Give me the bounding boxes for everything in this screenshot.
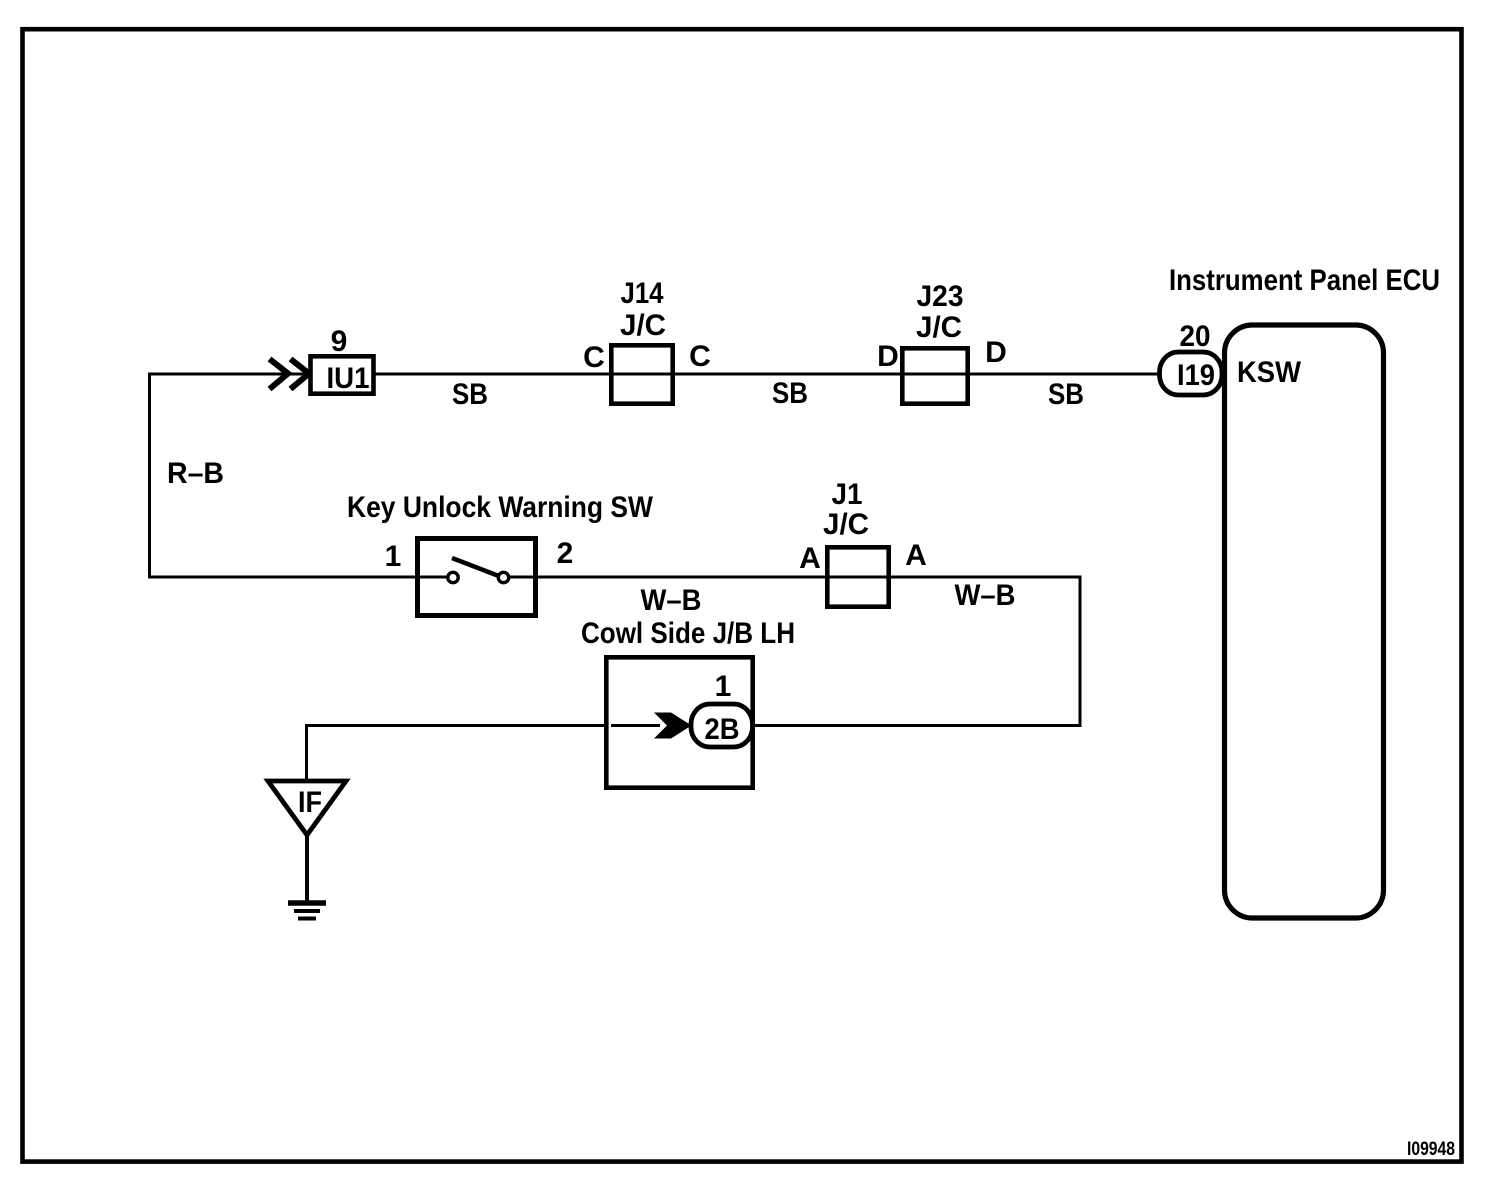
connector I19 [1160, 352, 1223, 395]
svg-text:KSW: KSW [1237, 356, 1302, 389]
wire W-B right vertical [1079, 577, 1082, 727]
svg-text:A: A [905, 539, 927, 572]
switch SW1 Key Unlock Warning SW [347, 491, 654, 616]
connector IU1 [311, 356, 374, 395]
figure number I09948 [1407, 1139, 1455, 1160]
pin D left of J23 [877, 340, 899, 373]
svg-text:SB: SB [1048, 378, 1084, 411]
wire label SB (right) [1048, 378, 1084, 411]
connector arrows (in-line connector chevrons) [270, 359, 310, 389]
svg-text:J14: J14 [621, 277, 664, 310]
pin C right of J14 [689, 340, 711, 373]
pin 1 of switch [385, 540, 402, 573]
svg-text:SB: SB [772, 377, 808, 410]
svg-text:1: 1 [385, 540, 402, 573]
svg-text:J/C: J/C [620, 309, 666, 342]
svg-text:Key Unlock Warning SW: Key Unlock Warning SW [347, 491, 654, 524]
svg-text:1: 1 [715, 670, 732, 703]
svg-text:D: D [985, 336, 1007, 369]
pin 20 of connector I19 [1180, 320, 1211, 353]
wire label W-B (right) [955, 579, 1016, 612]
svg-text:IU1: IU1 [327, 362, 370, 395]
pin A left of J1 [799, 542, 821, 575]
junction block Cowl Side J/B LH [581, 617, 795, 788]
svg-text:C: C [689, 340, 711, 373]
svg-text:IF: IF [298, 786, 322, 819]
svg-text:20: 20 [1180, 320, 1211, 353]
wire from IF to ground [305, 835, 309, 903]
connector 2B [691, 704, 753, 747]
pin 2 of switch [557, 537, 574, 570]
ground connector IF [268, 781, 346, 835]
svg-text:J/C: J/C [916, 311, 962, 344]
svg-text:J1: J1 [832, 478, 863, 511]
pin D right of J23 [985, 336, 1007, 369]
terminal KSW [1237, 356, 1302, 389]
pin 1 of 2B connector [715, 670, 732, 703]
svg-text:J23: J23 [917, 280, 964, 313]
wire ground drop [305, 724, 308, 783]
wire into 2B with arrow [611, 713, 692, 739]
junction connector J23 [902, 280, 967, 404]
wire label R-B [167, 457, 224, 490]
wire label SB (middle) [772, 377, 808, 410]
pin A right of J1 [905, 539, 927, 572]
wire bottom horizontal [306, 724, 1082, 727]
Instrument Panel ECU block [1169, 264, 1440, 918]
wire label SB (left) [452, 378, 488, 411]
junction connector J14 [611, 277, 672, 404]
svg-text:A: A [799, 542, 821, 575]
svg-text:D: D [877, 340, 899, 373]
wire middle horizontal (switch row) [148, 576, 1082, 579]
svg-text:9: 9 [331, 325, 348, 358]
svg-text:2: 2 [557, 537, 574, 570]
svg-text:W–B: W–B [955, 579, 1016, 612]
svg-text:SB: SB [452, 378, 488, 411]
wire SB top horizontal [148, 373, 1161, 376]
pin 9 of IU1 [331, 325, 348, 358]
wire R-B left vertical [148, 373, 151, 579]
svg-text:W–B: W–B [641, 584, 702, 617]
svg-text:Cowl Side J/B LH: Cowl Side J/B LH [581, 617, 795, 650]
svg-text:I09948: I09948 [1407, 1139, 1455, 1160]
wire label W-B (left) [641, 584, 702, 617]
svg-text:I19: I19 [1177, 359, 1215, 392]
ground symbol [288, 903, 326, 919]
svg-text:J/C: J/C [823, 508, 869, 541]
svg-text:2B: 2B [705, 713, 740, 746]
svg-text:R–B: R–B [167, 457, 224, 490]
junction connector J1 [823, 478, 889, 607]
svg-text:C: C [583, 341, 605, 374]
svg-text:Instrument Panel ECU: Instrument Panel ECU [1169, 264, 1440, 297]
pin C left of J14 [583, 341, 605, 374]
